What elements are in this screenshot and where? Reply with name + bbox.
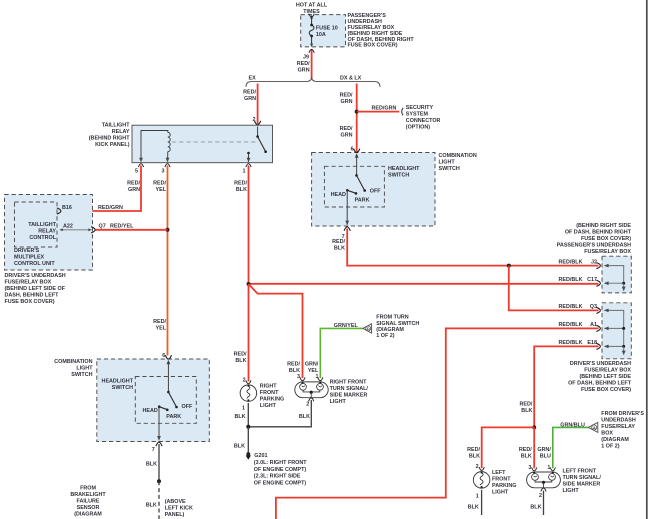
svg-text:3: 3 [528, 465, 531, 471]
pin 5 of relay [135, 158, 144, 175]
svg-text:COMBINATION: COMBINATION [439, 153, 477, 159]
svg-text:FROM: FROM [80, 486, 96, 492]
svg-text:BLK: BLK [334, 246, 345, 252]
wire RED/YEL relay pin 3 down to headlight switch pin 6 [153, 166, 167, 356]
svg-text:RED/BLK: RED/BLK [559, 340, 583, 346]
svg-text:(3.0L: RIGHT FRONT: (3.0L: RIGHT FRONT [254, 460, 307, 466]
pin 3 of relay [162, 158, 171, 175]
svg-text:J9: J9 [303, 55, 309, 61]
svg-text:(DIAGRAM: (DIAGRAM [601, 437, 629, 443]
wire RED/GRN to security system connector [357, 105, 400, 111]
svg-text:BLK: BLK [521, 453, 532, 459]
ground junction node [246, 425, 250, 429]
svg-text:1 OF 2): 1 OF 2) [376, 333, 394, 339]
wire RED/BLK junction down to right front parking light pin 2 [234, 284, 249, 382]
svg-text:FROM TURN: FROM TURN [376, 315, 408, 321]
svg-text:(ABOVE: (ABOVE [165, 499, 186, 505]
svg-text:A1: A1 [590, 322, 597, 328]
svg-text:RED/: RED/ [297, 61, 310, 67]
svg-text:RED/YEL: RED/YEL [110, 224, 134, 230]
right front turn signal / side marker light [295, 377, 369, 407]
svg-text:FUSE 10: FUSE 10 [316, 25, 338, 31]
wire BLK dashed continuing down [146, 481, 193, 519]
svg-text:FUSE/RELAY BOX: FUSE/RELAY BOX [5, 279, 52, 285]
svg-text:7: 7 [152, 447, 155, 453]
svg-text:FUSE BOX COVER): FUSE BOX COVER) [581, 236, 631, 242]
svg-text:D: D [367, 326, 370, 331]
wire BLK pin 7 down to splice [146, 444, 159, 481]
pin 7 of combination light switch (bottom) [152, 436, 162, 453]
svg-text:GRN/BLU: GRN/BLU [560, 423, 585, 429]
pin A22 with two-way arrow [59, 223, 92, 231]
svg-text:KICK PANEL): KICK PANEL) [95, 142, 130, 148]
wire RED/BLK junction down to left front turn signal pin 3 [519, 427, 534, 468]
svg-text:OF ENGINE COMPT): OF ENGINE COMPT) [254, 480, 307, 486]
svg-text:HEADLIGHT: HEADLIGHT [388, 166, 420, 172]
svg-text:OF DASH, BEHIND LEFT: OF DASH, BEHIND LEFT [568, 380, 632, 386]
svg-text:DRIVER'S UNDERDASH: DRIVER'S UNDERDASH [5, 273, 66, 279]
svg-text:Q3: Q3 [590, 304, 597, 310]
svg-text:2: 2 [539, 493, 542, 499]
brace splitting to EX and DX & LX [246, 76, 380, 87]
svg-text:DRIVER'S UNDERDASH: DRIVER'S UNDERDASH [570, 361, 631, 367]
fuse 10 10A [309, 16, 338, 46]
svg-text:GRN/YEL: GRN/YEL [334, 323, 359, 329]
svg-text:2: 2 [243, 377, 246, 383]
svg-text:RED/GRN: RED/GRN [98, 205, 123, 211]
svg-text:LIGHT: LIGHT [330, 399, 347, 405]
svg-text:SYSTEM: SYSTEM [406, 111, 429, 117]
svg-text:RED/GRN: RED/GRN [372, 105, 397, 111]
svg-text:RED/: RED/ [287, 362, 300, 368]
relay coil [141, 131, 170, 162]
headlight switch (inner dashed box, bottom) [102, 377, 197, 424]
svg-text:G201: G201 [254, 453, 267, 459]
svg-text:(2.3L: RIGHT SIDE: (2.3L: RIGHT SIDE [254, 474, 301, 480]
wire BLK junction to G201 [234, 427, 248, 452]
labels at right front turn signal pins [287, 362, 319, 380]
svg-text:OF DASH, BEHIND RIGHT: OF DASH, BEHIND RIGHT [565, 230, 632, 236]
svg-text:GRN: GRN [128, 187, 140, 193]
pin C17 [559, 277, 601, 286]
svg-text:2: 2 [306, 401, 309, 407]
svg-text:SENSOR: SENSOR [77, 505, 100, 511]
pin Q7 at outer box edge [91, 224, 134, 233]
svg-text:OF ENGINE COMPT): OF ENGINE COMPT) [254, 467, 307, 473]
security system connector stub [402, 105, 441, 130]
svg-text:RIGHT FRONT: RIGHT FRONT [330, 380, 368, 386]
svg-text:DASH, BEHIND LEFT: DASH, BEHIND LEFT [5, 292, 60, 298]
ground G201 [246, 452, 308, 486]
svg-text:(DIAGRAM: (DIAGRAM [376, 327, 404, 333]
left front parking light [473, 464, 516, 499]
svg-text:(BEHIND RIGHT SIDE: (BEHIND RIGHT SIDE [576, 223, 631, 229]
wire BLK left turn signal pin 2 [530, 491, 543, 515]
wire RED/YEL Q7 to junction [96, 229, 168, 231]
svg-text:BLK: BLK [235, 358, 246, 364]
svg-text:BLU: BLU [540, 453, 551, 459]
wire BLK turn signal pin 2 to ground junction [248, 400, 311, 427]
svg-text:TAILLIGHT: TAILLIGHT [28, 222, 56, 228]
svg-text:RED/BLK: RED/BLK [559, 304, 583, 310]
svg-text:FAILURE: FAILURE [76, 499, 99, 505]
wire BLK left parking light pin 1 [468, 490, 482, 515]
svg-text:BLK: BLK [469, 453, 480, 459]
svg-text:LIGHT: LIGHT [76, 365, 93, 371]
driver's underdash fuse/relay box (right, Q3 A1 E18) [568, 303, 632, 393]
svg-text:FUSE BOX COVER): FUSE BOX COVER) [348, 43, 398, 49]
svg-text:J2: J2 [591, 260, 597, 266]
svg-text:FUSE/RELAY BOX: FUSE/RELAY BOX [584, 249, 631, 255]
wire RED/GRN from J9 to split brace [297, 50, 312, 79]
svg-text:PARKING: PARKING [492, 483, 516, 489]
driver's multiplex control unit (outer dashed box) [5, 195, 93, 305]
wire RED/BLK junction to left front parking light pin 2 [467, 427, 534, 468]
headlight switch mechanism (bottom): OFF / PARK / HEAD [143, 361, 193, 440]
svg-text:TURN SIGNAL/: TURN SIGNAL/ [563, 475, 602, 481]
svg-text:BOX: BOX [601, 431, 613, 437]
svg-text:FUSE/RELAY: FUSE/RELAY [601, 424, 635, 430]
wire RED/BLK main junction to C17 [249, 283, 599, 285]
svg-text:2: 2 [476, 464, 479, 470]
svg-text:E18: E18 [587, 340, 597, 346]
junction on J2 wire [507, 264, 511, 268]
svg-text:(OPTION): (OPTION) [406, 124, 430, 130]
taillight relay control (inner dashed box) [15, 202, 58, 247]
svg-text:PARK: PARK [355, 198, 370, 204]
junction on DX branch to security connector [355, 110, 359, 114]
svg-text:LEFT KICK: LEFT KICK [165, 505, 193, 511]
junction Q7 on RED/YEL wire [166, 228, 170, 232]
svg-text:DRIVER'S: DRIVER'S [14, 248, 40, 254]
svg-text:MULTIPLEX: MULTIPLEX [14, 255, 45, 261]
wire BLK parking light pin 1 to ground junction [235, 403, 249, 427]
pin B16 [57, 205, 72, 214]
svg-text:BLK: BLK [299, 414, 310, 420]
taillight relay (behind right kick panel) [89, 123, 273, 163]
svg-text:RED/: RED/ [153, 181, 166, 187]
svg-text:LIGHT: LIGHT [439, 160, 456, 166]
svg-text:SIGNAL SWITCH: SIGNAL SWITCH [376, 321, 419, 327]
left lights junction node [532, 425, 536, 429]
svg-text:CONTROL: CONTROL [29, 235, 56, 241]
svg-text:UNDERDASH: UNDERDASH [601, 418, 636, 424]
wire GRN/BLU from driver's underdash fuse/relay box [537, 423, 588, 469]
svg-text:(BEHIND RIGHT: (BEHIND RIGHT [89, 136, 130, 142]
svg-text:LIGHT: LIGHT [563, 488, 580, 494]
svg-text:1: 1 [243, 169, 246, 175]
svg-text:RED/: RED/ [340, 93, 353, 99]
svg-text:RED/: RED/ [127, 181, 140, 187]
border frame right edge [646, 0, 648, 519]
svg-text:(BEHIND LEFT SIDE OF: (BEHIND LEFT SIDE OF [5, 286, 66, 292]
headlight switch mechanism (top): OFF / PARK / HEAD [331, 155, 382, 225]
pin E18 [559, 340, 601, 349]
svg-text:BLK: BLK [235, 414, 246, 420]
pin J9 at fuse box bottom [303, 44, 314, 61]
svg-text:LIGHT: LIGHT [260, 403, 277, 409]
svg-text:RELAY: RELAY [112, 129, 130, 135]
wire RED/GRN DX & LX branch down to combination light switch pin 6 [340, 84, 357, 156]
svg-text:BLK: BLK [146, 461, 157, 467]
wire RED/GRN relay pin 5 to B16 [61, 166, 141, 212]
wire RED/BLK from pin 7 to J2 [332, 229, 598, 266]
svg-text:(BEHIND LEFT SIDE: (BEHIND LEFT SIDE [579, 374, 631, 380]
svg-text:FRONT: FRONT [492, 477, 511, 483]
svg-text:5: 5 [135, 169, 138, 175]
wire RED/GRN EX branch to relay pin 2 [243, 84, 257, 125]
wire RED/BLK A1 long run to bottom left [276, 328, 599, 519]
main junction node [247, 282, 251, 286]
svg-text:BLK: BLK [146, 503, 157, 509]
connector from turn signal switch (triangle) [363, 315, 420, 340]
svg-text:LEFT FRONT: LEFT FRONT [563, 469, 597, 475]
svg-text:HEAD: HEAD [331, 192, 346, 198]
svg-text:BLK: BLK [530, 504, 541, 510]
svg-text:SWITCH: SWITCH [71, 372, 92, 378]
svg-text:GRN: GRN [341, 99, 353, 105]
pin J2 [559, 260, 601, 269]
svg-text:SIDE MARKER: SIDE MARKER [330, 393, 368, 399]
svg-text:RIGHT: RIGHT [260, 383, 277, 389]
svg-text:TAILLIGHT: TAILLIGHT [102, 123, 130, 129]
svg-text:SIDE MARKER: SIDE MARKER [563, 482, 601, 488]
pin 2 of taillight relay [253, 117, 261, 130]
svg-text:GRN: GRN [341, 132, 353, 138]
pin 6 of combination light switch (bottom) [162, 353, 171, 365]
svg-text:PASSENGER'S UNDERDASH: PASSENGER'S UNDERDASH [557, 243, 631, 249]
svg-text:A22: A22 [63, 223, 73, 229]
svg-text:FRONT: FRONT [260, 390, 279, 396]
svg-text:SWITCH: SWITCH [439, 166, 460, 172]
svg-text:CONTROL UNIT: CONTROL UNIT [14, 261, 55, 267]
combination light switch (top, dashed box) [312, 153, 477, 227]
svg-text:3: 3 [162, 169, 165, 175]
wire RED/BLK branch to right front turn signal pin 3 [249, 284, 303, 378]
svg-text:BLK: BLK [234, 444, 245, 450]
right front parking light [240, 377, 284, 411]
relay switch contacts [247, 127, 267, 162]
svg-text:A: A [593, 425, 596, 430]
svg-text:SWITCH: SWITCH [388, 173, 409, 179]
svg-text:LEFT: LEFT [492, 470, 506, 476]
pin 1 of relay [243, 158, 252, 175]
headlight switch (inner dashed box, top) [324, 166, 420, 207]
svg-text:RELAY: RELAY [38, 229, 56, 235]
svg-text:RED/: RED/ [234, 181, 247, 187]
svg-text:TURN SIGNAL/: TURN SIGNAL/ [330, 386, 369, 392]
svg-text:DX & LX: DX & LX [340, 76, 362, 82]
svg-text:RED/: RED/ [467, 447, 480, 453]
svg-text:1: 1 [476, 493, 479, 499]
svg-text:EX: EX [249, 76, 257, 82]
svg-text:RED/: RED/ [153, 319, 166, 325]
svg-text:RED/: RED/ [520, 402, 533, 408]
svg-text:1 OF 2): 1 OF 2) [601, 444, 619, 450]
svg-text:C17: C17 [587, 277, 597, 283]
pin 7 of combination light switch (top) [342, 221, 351, 240]
relay linkage (dashed) [172, 141, 256, 143]
svg-text:GRN: GRN [298, 67, 310, 73]
svg-text:3: 3 [297, 374, 300, 380]
node FROM BRAKELIGHT FAILURE SENSOR [70, 486, 106, 518]
pin Q3 [559, 304, 601, 313]
svg-text:OFF: OFF [370, 188, 381, 194]
svg-text:GRN/: GRN/ [305, 362, 319, 368]
svg-text:RED/BLK: RED/BLK [559, 260, 583, 266]
svg-text:FROM DRIVER'S: FROM DRIVER'S [601, 411, 644, 417]
svg-text:RED/BLK: RED/BLK [559, 277, 583, 283]
svg-text:RED/: RED/ [243, 90, 256, 96]
svg-text:YEL: YEL [156, 326, 167, 332]
svg-text:6: 6 [162, 353, 165, 359]
svg-text:PARK: PARK [166, 414, 181, 420]
svg-text:FUSE BOX COVER): FUSE BOX COVER) [581, 387, 631, 393]
svg-text:GRN: GRN [244, 96, 256, 102]
pin top of fuse box [310, 15, 313, 19]
pin 6 of combination light switch (top) [351, 147, 360, 158]
svg-text:1: 1 [242, 405, 245, 411]
svg-text:RED/: RED/ [234, 352, 247, 358]
svg-text:PARKING: PARKING [260, 396, 284, 402]
svg-text:HEAD: HEAD [143, 408, 158, 414]
svg-text:6: 6 [351, 147, 354, 153]
splice node above left kick panel [157, 479, 161, 483]
svg-text:FUSE/RELAY BOX: FUSE/RELAY BOX [584, 367, 631, 373]
wire RED/BLK E18 to left front lights [520, 346, 599, 427]
svg-text:RED/BLK: RED/BLK [559, 322, 583, 328]
svg-text:BRAKELIGHT: BRAKELIGHT [70, 492, 106, 498]
svg-text:SECURITY: SECURITY [406, 105, 434, 111]
svg-text:(DIAGRAM: (DIAGRAM [74, 512, 102, 518]
wire GRN/YEL from turn signal switch connector [320, 323, 363, 378]
wire RED/BLK relay pin 1 down to junction [234, 166, 248, 285]
svg-text:HEADLIGHT: HEADLIGHT [102, 378, 134, 384]
svg-text:GRN/: GRN/ [537, 447, 551, 453]
svg-text:HOT AT ALL: HOT AT ALL [296, 3, 328, 9]
svg-text:BLK: BLK [521, 408, 532, 414]
svg-text:OFF: OFF [182, 404, 193, 410]
combination light switch (bottom, dashed box) [54, 359, 209, 442]
svg-text:RED/: RED/ [332, 239, 345, 245]
svg-text:FUSE BOX COVER): FUSE BOX COVER) [5, 299, 55, 305]
passenger's underdash fuse/relay box (right, J2 C17) [557, 223, 632, 293]
pin A1 [559, 322, 601, 331]
svg-text:B16: B16 [62, 205, 72, 211]
svg-text:BLK: BLK [236, 187, 247, 193]
connector A from driver's underdash fuse/relay box (triangle) [588, 411, 644, 450]
svg-text:RED/: RED/ [519, 447, 532, 453]
svg-text:Q7: Q7 [99, 224, 106, 230]
svg-text:BLK: BLK [468, 504, 479, 510]
passenger's underdash fuse/relay box (top, contains fuse 10) [301, 13, 415, 49]
wire RED/BLK junction down to Q3 [509, 266, 599, 311]
svg-text:COMBINATION: COMBINATION [54, 359, 92, 365]
svg-text:LIGHT: LIGHT [492, 490, 509, 496]
svg-text:YEL: YEL [156, 187, 167, 193]
node HOT AT ALL TIMES [296, 3, 328, 16]
left front turn signal / side marker light [527, 465, 602, 499]
svg-text:SWITCH: SWITCH [112, 385, 133, 391]
svg-text:RED/: RED/ [340, 126, 353, 132]
svg-text:10A: 10A [316, 32, 326, 38]
svg-text:PANEL): PANEL) [165, 512, 185, 518]
svg-text:CONNECTOR: CONNECTOR [406, 118, 441, 124]
